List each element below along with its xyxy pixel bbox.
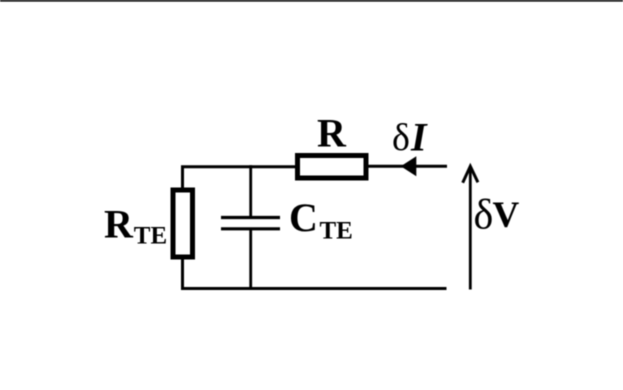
svg-text:TE: TE bbox=[134, 223, 167, 250]
svg-text:TE: TE bbox=[320, 218, 353, 245]
wire: bottom rail bbox=[181, 287, 447, 290]
svg-text:I: I bbox=[410, 114, 428, 159]
svg-text:δ: δ bbox=[392, 117, 410, 159]
wire: R_TE bottom down to bottom rail bbox=[181, 259, 184, 289]
wire: capacitor top lead bbox=[249, 165, 252, 217]
wire: from R right side to the right bbox=[369, 165, 448, 168]
top rule bbox=[0, 0, 623, 2]
svg-text:δ: δ bbox=[474, 193, 494, 239]
capacitor C_TE plates bbox=[221, 216, 280, 219]
wire: top-left corner from R_TE top up and right to resistor R bbox=[183, 167, 296, 188]
resistor R_TE bbox=[173, 190, 193, 257]
arrow delta V: arrowhead bbox=[463, 166, 478, 182]
svg-text:C: C bbox=[289, 195, 318, 240]
svg-text:V: V bbox=[493, 195, 520, 236]
arrow delta V: vertical line bbox=[469, 168, 472, 290]
wire: capacitor bottom lead bbox=[249, 229, 252, 290]
svg-text:R: R bbox=[317, 111, 347, 156]
arrowhead for current direction (delta I), filled, pointing left bbox=[401, 156, 417, 176]
svg-text:R: R bbox=[104, 201, 134, 246]
resistor R bbox=[298, 156, 367, 179]
